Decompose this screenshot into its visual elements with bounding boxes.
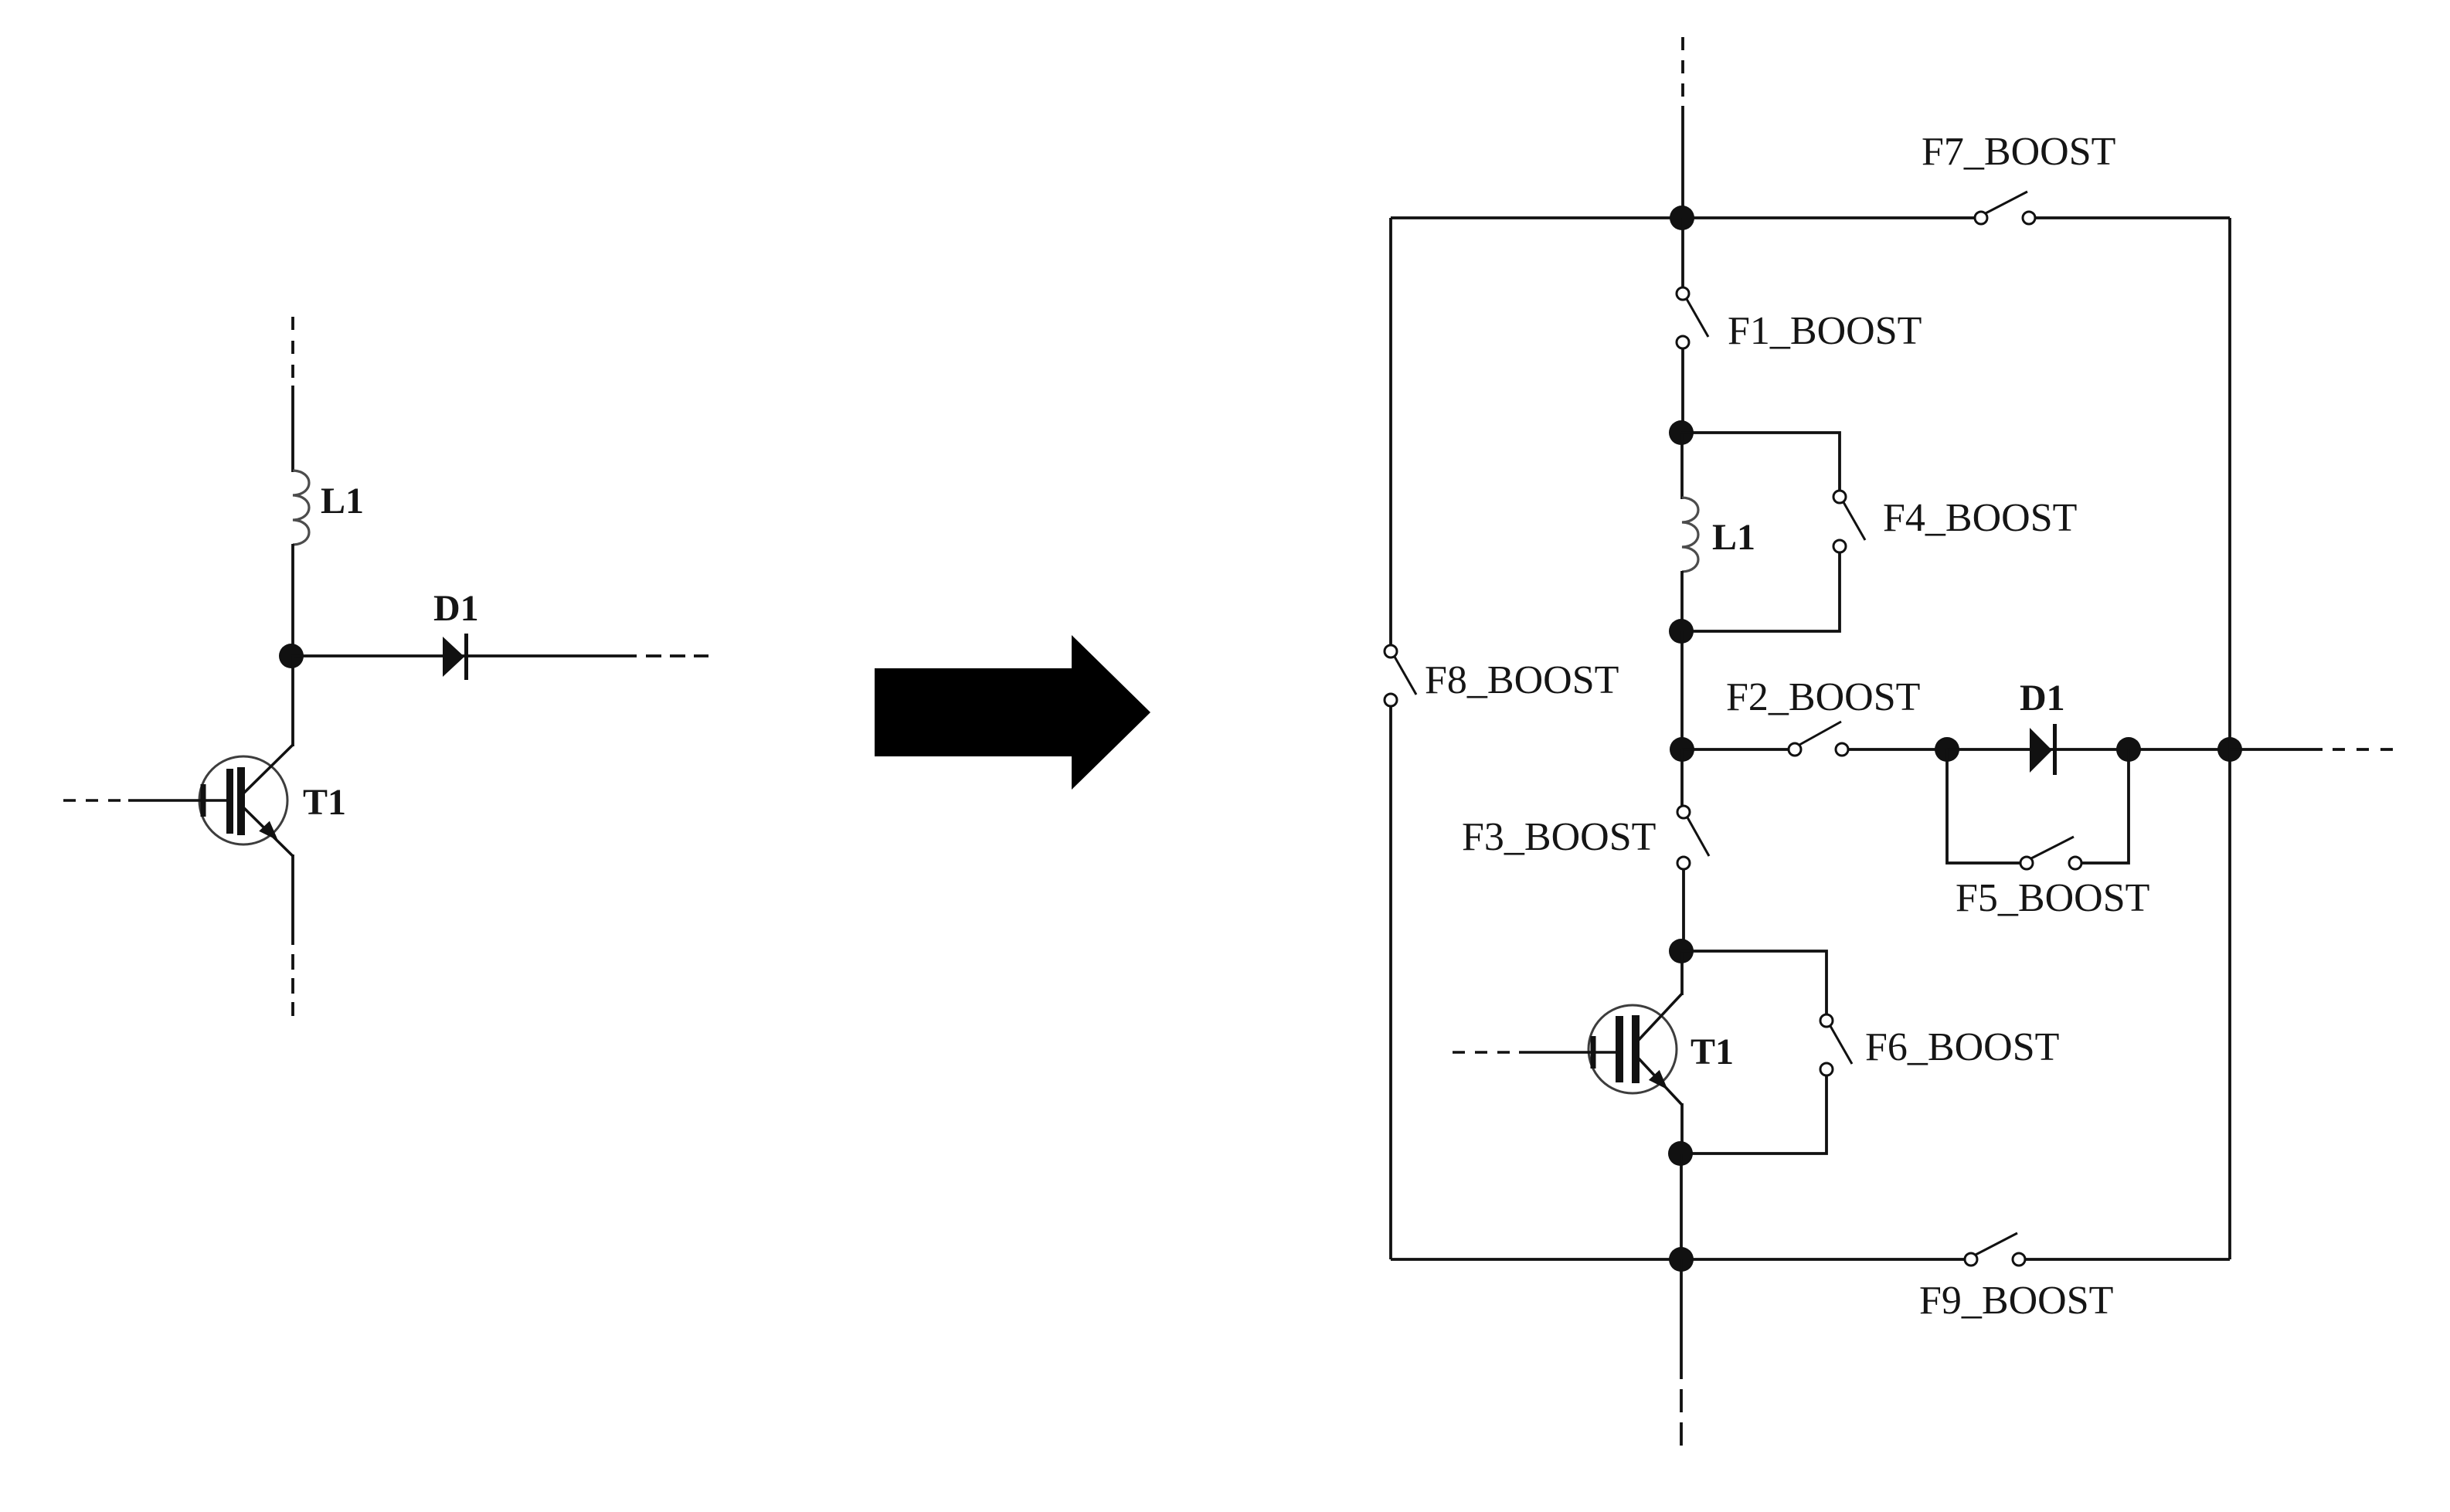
node: center main-wire junction (1670, 737, 1694, 762)
node: D1 cathode (2116, 737, 2141, 762)
wire: left bottom dashed lead (291, 954, 294, 1016)
svg-text:L1: L1 (321, 481, 364, 522)
svg-text:L1: L1 (1712, 517, 1755, 558)
right rail (2228, 218, 2231, 1259)
svg-text:F9_BOOST: F9_BOOST (1919, 1279, 2113, 1323)
F5 bypass right wire (2081, 749, 2129, 863)
svg-text:F4_BOOST: F4_BOOST (1883, 496, 2077, 540)
wire: F1 to L1 top node (1681, 348, 1684, 433)
wire: right circuit top dashed lead (1681, 37, 1684, 100)
left rail upper (1389, 218, 1392, 645)
big arrow (875, 635, 1150, 790)
wire: F2 to D1 anode node (1848, 748, 1947, 751)
wire: emitter node to bottom rail (1680, 1154, 1683, 1259)
node: right rail crossing (2217, 737, 2242, 762)
wire: L1 bottom lead (1680, 571, 1684, 631)
wire: center vertical above F1 (1681, 218, 1684, 287)
switch F4_BOOST (1833, 491, 1865, 552)
wire: L1 bottom node to main wire node (1680, 631, 1684, 749)
transistor T1 (right) (1453, 994, 1682, 1105)
node: bottom rail center (1669, 1247, 1694, 1272)
node: top rail center (1670, 206, 1694, 230)
wire: collector to node (1680, 951, 1684, 995)
svg-text:D1: D1 (2020, 678, 2065, 719)
wire: L1 bottom to node (291, 544, 294, 656)
svg-text:F5_BOOST: F5_BOOST (1956, 876, 2149, 920)
switch F7_BOOST (1975, 192, 2035, 224)
svg-text:F1_BOOST: F1_BOOST (1728, 309, 1922, 353)
svg-text:F6_BOOST: F6_BOOST (1865, 1025, 2059, 1069)
wire: center vertical to F3 (1680, 749, 1684, 806)
wire: emitter down (291, 855, 294, 945)
inductor L1 (right) (1682, 498, 1698, 572)
switch F6_BOOST (1820, 1014, 1852, 1075)
switch F2_BOOST (1789, 722, 1848, 756)
wire: through diode to right rail (1947, 748, 2230, 751)
wire: F3 to T1 top node (1682, 869, 1685, 951)
wire: L1 top lead (1680, 433, 1684, 499)
wire: output dashed end (2333, 748, 2394, 751)
wire: output to right (2230, 748, 2323, 751)
node: T1 emitter (1668, 1141, 1693, 1166)
F4 branch wires (1681, 433, 1840, 491)
wire: emitter down to node (1680, 1103, 1684, 1154)
F6 branch lower wire (1680, 1075, 1826, 1154)
wire: left horizontal output (291, 654, 637, 657)
inductor L1 (left) (293, 471, 309, 545)
wire: bottom dashed lead (1680, 1389, 1683, 1453)
wire: left circuit top solid lead (291, 386, 294, 472)
bottom rail (1391, 1258, 1965, 1261)
switch F3_BOOST (1677, 806, 1709, 869)
node: T1 collector (1669, 939, 1694, 963)
switch F5_BOOST (2020, 837, 2081, 869)
node: L1 bottom (1669, 619, 1694, 644)
wire: left output dashed end (646, 654, 708, 657)
svg-text:F7_BOOST: F7_BOOST (1922, 130, 2115, 174)
node A (left junction) (279, 644, 304, 668)
left rail lower (1389, 706, 1392, 1259)
top rail (1391, 216, 1975, 219)
svg-text:T1: T1 (1691, 1031, 1734, 1072)
transistor T1 (left) (63, 745, 293, 856)
svg-text:F8_BOOST: F8_BOOST (1425, 658, 1619, 702)
F6 branch wires (1681, 951, 1826, 1014)
svg-text:F2_BOOST: F2_BOOST (1726, 675, 1920, 719)
wire: right circuit top solid lead (1681, 106, 1684, 218)
wire: main horizontal to F2 (1682, 748, 1789, 751)
F4 branch lower wire (1681, 552, 1840, 631)
wire: bottom center solid lead (1680, 1259, 1683, 1379)
F5 bypass wires (1947, 749, 2020, 863)
svg-text:T1: T1 (303, 782, 346, 823)
switch F1_BOOST (1677, 287, 1708, 348)
switch F8_BOOST (1385, 645, 1416, 706)
svg-text:D1: D1 (433, 588, 479, 629)
svg-text:F3_BOOST: F3_BOOST (1462, 815, 1656, 859)
node: D1 anode (1935, 737, 1959, 762)
wire: collector up to node (291, 656, 294, 746)
diode D1 (right) (2030, 724, 2057, 775)
wire: left circuit top dashed lead (291, 317, 294, 380)
diode D1 (left) (443, 634, 468, 680)
node: L1 top (1669, 420, 1694, 445)
switch F9_BOOST (1965, 1233, 2025, 1266)
